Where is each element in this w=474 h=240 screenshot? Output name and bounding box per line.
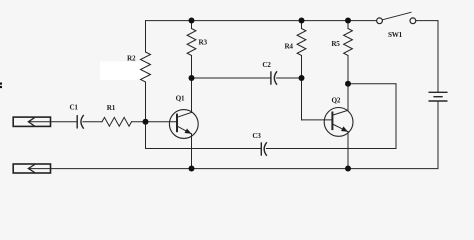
svg-text:Q2: Q2 [332,97,341,105]
svg-text:R3: R3 [199,38,208,46]
svg-text:Q1: Q1 [176,95,185,103]
svg-text:R1: R1 [107,104,116,112]
svg-text:C3: C3 [252,132,261,140]
svg-text:SW1: SW1 [388,31,403,39]
svg-text:R4: R4 [284,43,293,51]
svg-text:R2: R2 [127,54,136,62]
svg-text:R5: R5 [331,40,340,48]
svg-text:C2: C2 [262,61,271,69]
svg-text:C1: C1 [69,104,78,112]
